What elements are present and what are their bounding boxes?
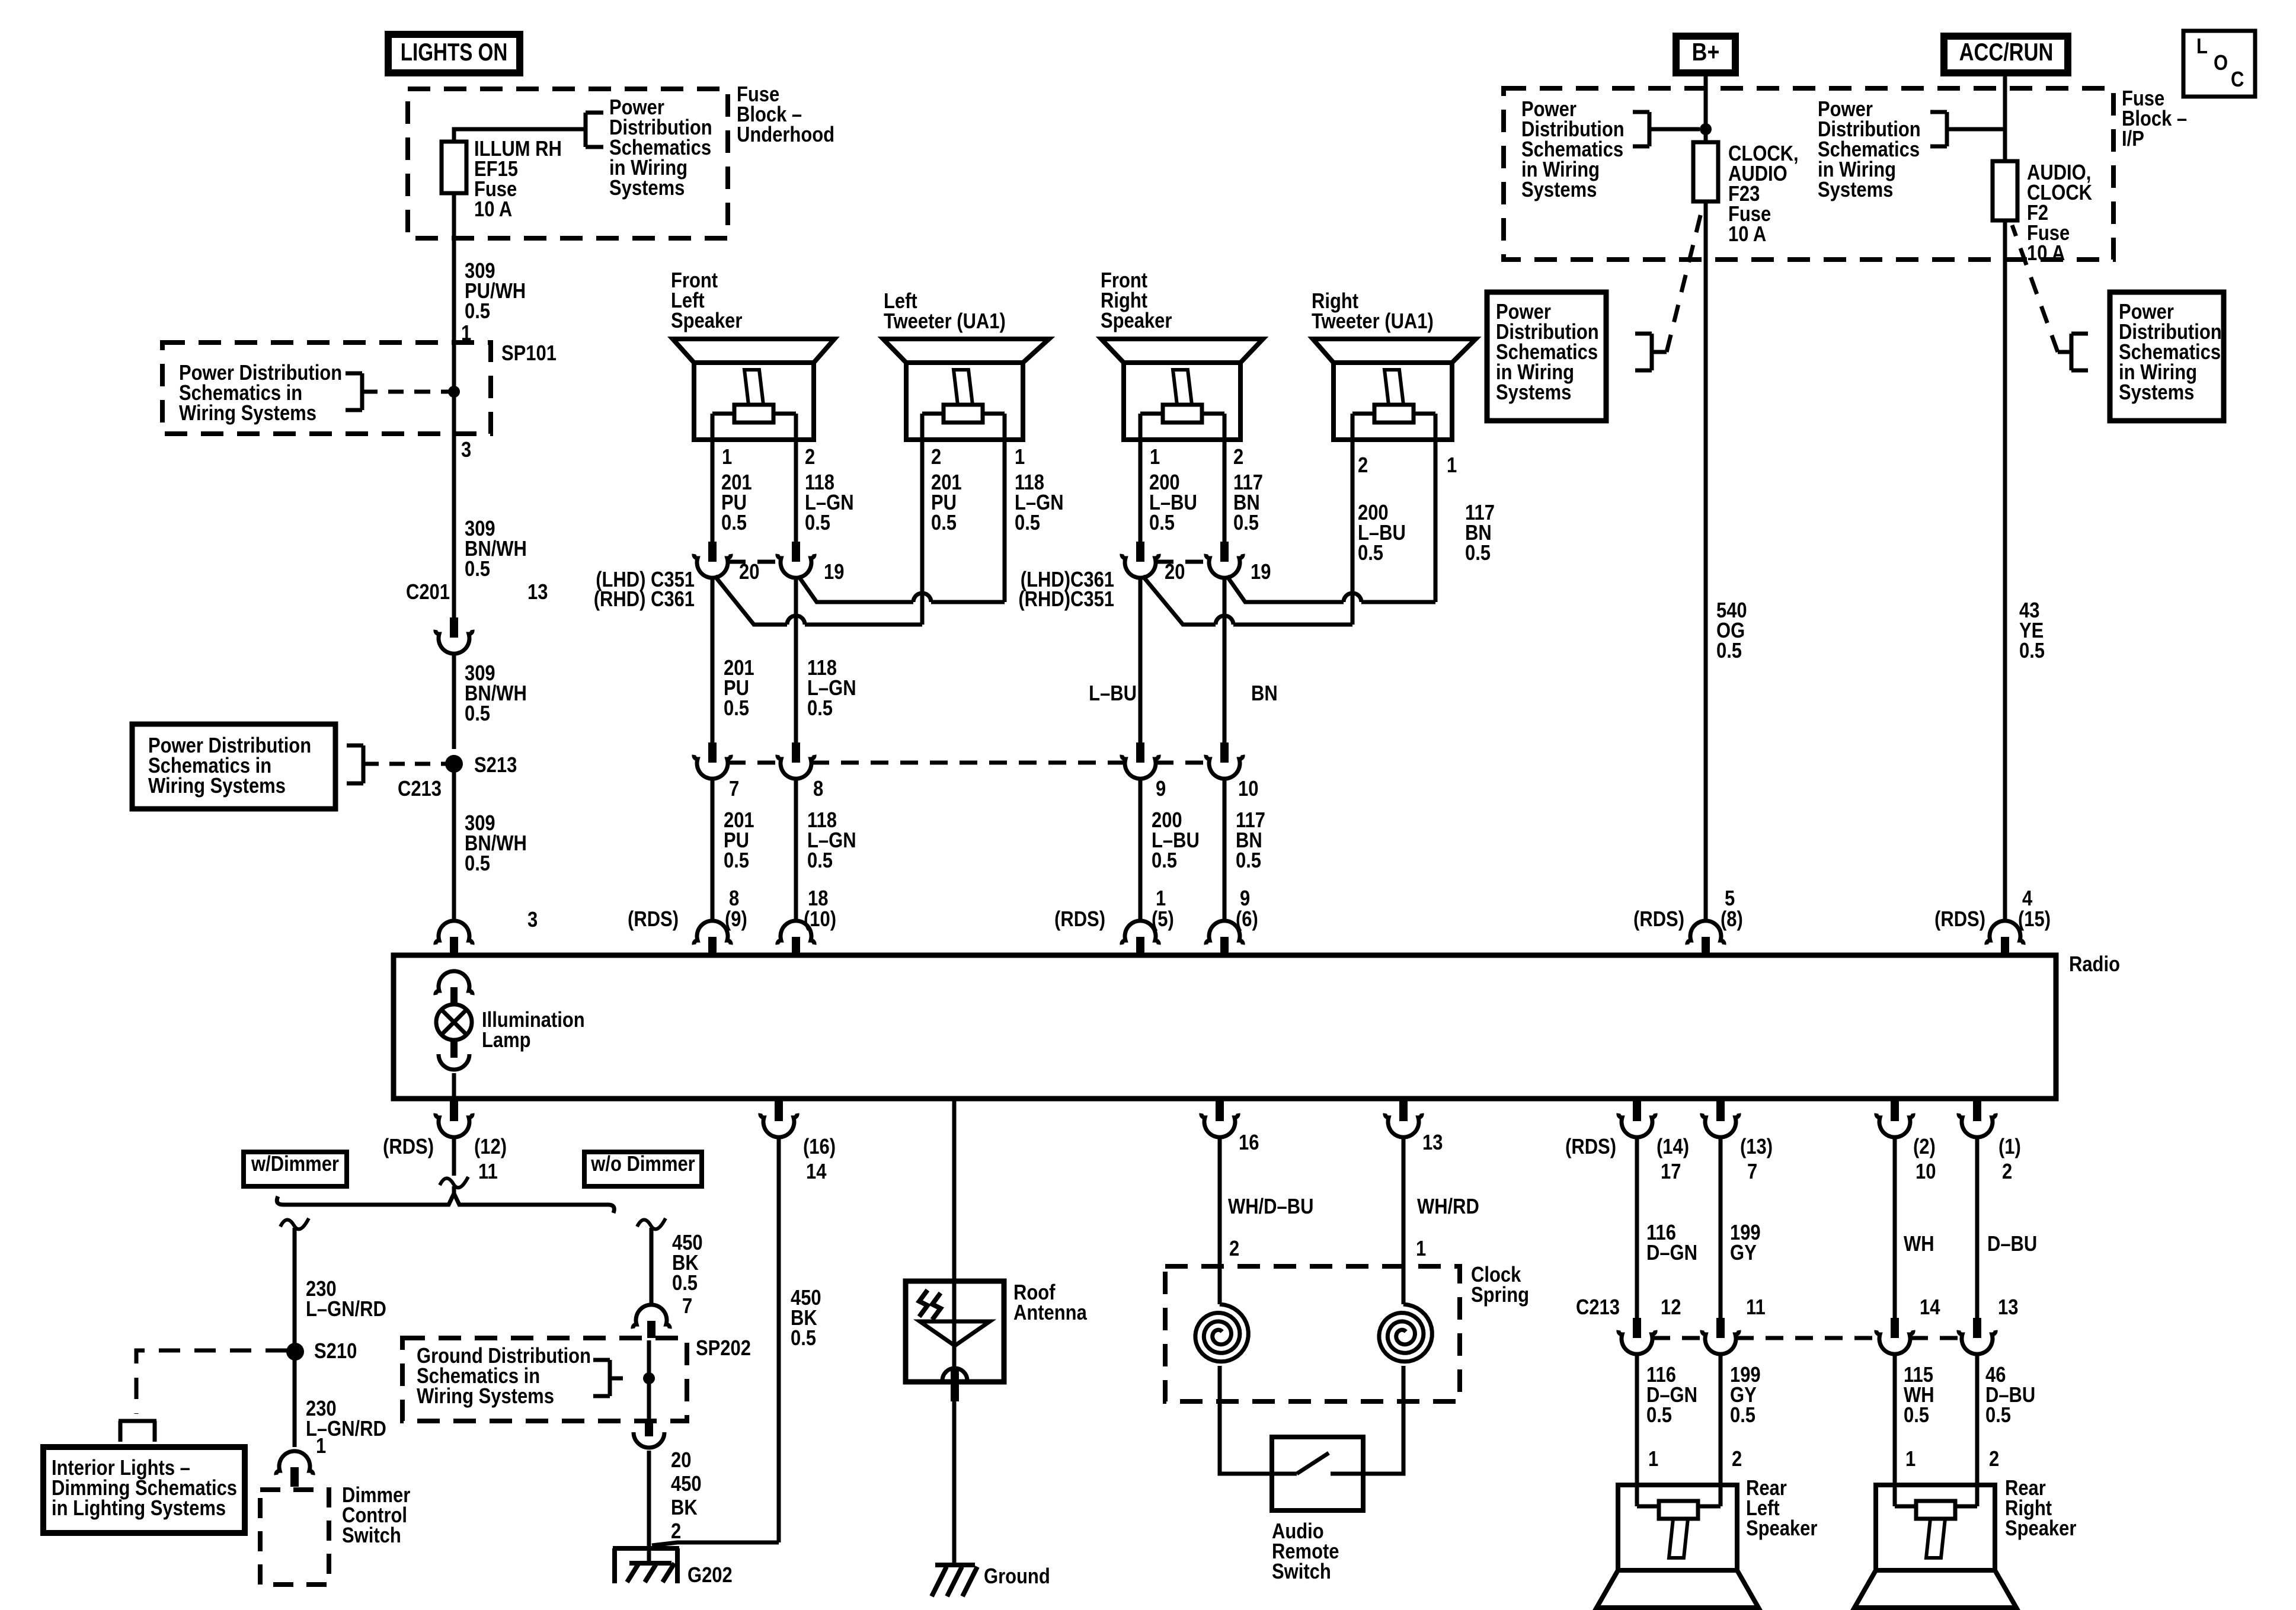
svg-text:S213: S213 (474, 754, 517, 777)
svg-text:0.5: 0.5 (1985, 1404, 2011, 1427)
svg-text:Switch: Switch (342, 1524, 401, 1548)
svg-text:Speaker: Speaker (671, 309, 742, 333)
svg-text:(12): (12) (474, 1135, 507, 1159)
front right speaker (1101, 269, 1263, 440)
splice SP202 connector (bottom) (634, 1421, 664, 1448)
connector C213 pin 8 (778, 742, 823, 801)
radio pin 9 connector (1206, 921, 1243, 955)
svg-text:(8): (8) (1721, 908, 1743, 932)
front left speaker pin labels (722, 446, 815, 469)
wire 118 L-GN 0.5 (speaker pin2) (796, 440, 854, 542)
wire 450 BK 0.5 (radio to G202) (652, 1135, 821, 1545)
reference tab (below ACC) (2012, 225, 2088, 370)
connector line C361 (right) (1156, 560, 1209, 564)
radio pin 5/(8) labels (1633, 887, 1743, 932)
svg-text:18: 18 (808, 887, 828, 911)
reference box power distribution (S213) (132, 724, 335, 809)
wire 309 BN/WH 0.5 (middle) (454, 652, 527, 749)
radio pin 8/(9) labels (628, 887, 747, 932)
svg-text:Systems: Systems (1496, 381, 1571, 405)
svg-text:7: 7 (1747, 1160, 1757, 1184)
clock spring (dashed box) (1165, 1263, 1529, 1401)
svg-text:G202: G202 (687, 1564, 733, 1587)
label w/o Dimmer (584, 1152, 702, 1186)
wire 309 BN/WH 0.5 (lower) (454, 764, 538, 932)
wire BN (to C213) (1224, 576, 1278, 742)
svg-text:(1): (1) (1998, 1135, 2021, 1159)
front left speaker (671, 269, 834, 440)
reference tab (ACC side) (1930, 112, 2005, 146)
wire B+ feed (1704, 76, 1708, 142)
right tweeter pin labels (1358, 454, 1457, 478)
svg-text:(RHD) C361: (RHD) C361 (594, 588, 695, 612)
roof antenna symbol (919, 1281, 990, 1401)
radio pin 13 connector (1385, 1101, 1443, 1155)
node B+ junction dot (1700, 123, 1712, 135)
svg-text:C213: C213 (1576, 1296, 1620, 1320)
wire splice to tweeter pin1 (left) (798, 576, 1005, 602)
svg-text:2: 2 (805, 446, 815, 469)
svg-text:B+: B+ (1692, 39, 1720, 66)
wire 230 L-GN/RD (upper) (280, 1218, 386, 1343)
rear left speaker (1597, 1477, 1817, 1608)
svg-text:Systems: Systems (1521, 178, 1597, 202)
connector C213 pin 13 (1959, 1296, 2019, 1354)
svg-text:WH: WH (1904, 1233, 1934, 1256)
svg-text:0.5: 0.5 (465, 300, 490, 324)
left tweeter pin labels (931, 446, 1025, 469)
radio pin 10/(2) connector (1876, 1101, 1936, 1184)
label power distribution schematics (fuse block) (609, 96, 712, 200)
svg-text:2: 2 (1229, 1237, 1239, 1261)
reference box interior lights dimming (43, 1447, 245, 1533)
front right speaker pin labels (1150, 446, 1243, 469)
clock spring coil left (1195, 1304, 1248, 1362)
node S210 splice (286, 1340, 357, 1363)
svg-text:0.5: 0.5 (807, 849, 833, 873)
svg-text:0.5: 0.5 (1236, 849, 1261, 873)
svg-text:O: O (2214, 52, 2228, 75)
svg-text:(RDS): (RDS) (1934, 908, 1985, 932)
wire clock spring to switch (left) (1220, 1366, 1272, 1474)
wire roof antenna lead (952, 1099, 957, 1281)
wire WH/D-BU (1220, 1135, 1313, 1304)
svg-text:2: 2 (1233, 446, 1243, 469)
splice SP101 (dashed box) (162, 343, 491, 434)
svg-text:Speaker: Speaker (1101, 309, 1172, 333)
svg-text:3: 3 (461, 438, 471, 462)
svg-text:Wiring Systems: Wiring Systems (417, 1385, 554, 1409)
svg-text:(13): (13) (1740, 1135, 1773, 1159)
svg-text:1: 1 (1015, 446, 1025, 469)
svg-text:8: 8 (729, 887, 739, 911)
reference text power distribution (ACC side) (1818, 98, 1921, 202)
radio pin 9/(6) labels (1236, 887, 1258, 932)
wire fuse feed (454, 129, 584, 142)
wire 46 D-BU 0.5 (to rear right spk) (1977, 1352, 2035, 1506)
svg-text:Ground: Ground (984, 1565, 1050, 1589)
wire WH (radio to C213) (1895, 1135, 1934, 1318)
wire 201 PU 0.5 (tweeter pin2) (922, 440, 962, 625)
wire WH/RD (1403, 1135, 1479, 1304)
fuse block I/P (dashed outline) (1504, 88, 2113, 260)
radio pin 3 connector (436, 921, 472, 955)
svg-text:0.5: 0.5 (465, 558, 490, 581)
radio pin 5 connector (1687, 921, 1724, 955)
svg-text:9: 9 (1156, 777, 1166, 801)
svg-text:0.5: 0.5 (1358, 542, 1383, 565)
wire splice to tweeter pin2 (right) (1143, 576, 1352, 625)
svg-text:8: 8 (813, 777, 823, 801)
svg-text:2: 2 (671, 1520, 681, 1544)
svg-text:WH/D–BU: WH/D–BU (1228, 1195, 1313, 1219)
svg-text:10 A: 10 A (2027, 242, 2065, 265)
wire splice to tweeter pin2 (left) (715, 576, 922, 625)
svg-text:S210: S210 (314, 1340, 357, 1363)
reference dashed link (S210) (136, 1350, 287, 1414)
connector C361 pin 20 (right) (1122, 542, 1185, 584)
svg-text:BN: BN (1251, 682, 1278, 706)
fuse F2 AUDIO CLOCK 10A (1993, 161, 2092, 265)
label SP101 (501, 342, 557, 366)
radio pin 18 connector (778, 921, 814, 955)
radio pin 8 connector (694, 921, 731, 955)
right tweeter (UA1) (1312, 290, 1476, 440)
connector C213 pin 10 (1206, 742, 1259, 801)
svg-text:0.5: 0.5 (1904, 1404, 1929, 1427)
connector C201 pin 13 (406, 581, 548, 654)
connector C351 pin 20 (left) (694, 542, 760, 584)
connector C361 pin 19 (right) (1206, 542, 1271, 584)
svg-text:D–GN: D–GN (1646, 1241, 1697, 1265)
svg-text:17: 17 (1661, 1160, 1681, 1184)
svg-text:0.5: 0.5 (1465, 542, 1491, 565)
svg-text:Systems: Systems (2119, 381, 2194, 405)
svg-text:2: 2 (1989, 1448, 1999, 1471)
svg-text:Wiring Systems: Wiring Systems (148, 774, 286, 798)
svg-text:1: 1 (316, 1435, 326, 1458)
svg-text:20: 20 (739, 561, 759, 584)
svg-text:2: 2 (931, 446, 941, 469)
svg-text:LIGHTS ON: LIGHTS ON (401, 39, 508, 66)
splice SP202 connector (top) (633, 1305, 670, 1338)
wire 199 GY (radio to C213) (1721, 1135, 1761, 1318)
svg-text:1: 1 (1905, 1448, 1916, 1471)
wire 20 450 BK 2 (649, 1449, 702, 1563)
fuse block - underhood (dashed outline) (408, 89, 728, 238)
svg-text:in Lighting Systems: in Lighting Systems (52, 1497, 226, 1521)
wire 309 BN/WH 0.5 (upper) (454, 439, 527, 617)
reference box power distribution (below B+) (1487, 292, 1606, 421)
wire 117 BN 0.5 (C213 to radio) (1224, 777, 1265, 922)
radio pin 2/(1) connector (1959, 1101, 2021, 1184)
svg-text:(2): (2) (1913, 1135, 1936, 1159)
reference power distribution text (SP101) (179, 361, 342, 425)
reference tab (interior lights) (119, 1421, 156, 1442)
wire 115 WH 0.5 (to rear right spk) (1895, 1352, 1934, 1506)
wire splice to tweeter pin1 (right) (1227, 576, 1435, 602)
svg-text:1: 1 (1416, 1237, 1426, 1261)
radio pin 4/(15) labels (1934, 887, 2051, 932)
label C213 (front row) (398, 777, 442, 801)
svg-text:Systems: Systems (609, 177, 685, 200)
dimmer control switch (dashed box) (260, 1484, 410, 1585)
wire clock spring to switch (right) (1363, 1366, 1403, 1474)
svg-text:0.5: 0.5 (791, 1327, 816, 1350)
wire 200 L-BU 0.5 (speaker pin1) (1140, 440, 1197, 542)
svg-text:Spring: Spring (1471, 1283, 1529, 1307)
node SP202 splice dot (643, 1372, 655, 1384)
ground (roof antenna) (932, 1565, 1050, 1596)
radio pin 11/(12) connector (383, 1101, 507, 1184)
radio pin 18/(10) labels (804, 887, 836, 932)
wire 116 D-GN (radio to C213) (1637, 1135, 1697, 1318)
reference tab (B+ side) (1633, 112, 1700, 146)
svg-text:L–BU: L–BU (1089, 682, 1137, 706)
svg-text:1: 1 (1150, 446, 1160, 469)
svg-text:0.5: 0.5 (1233, 511, 1259, 535)
connector line C213 (front) (728, 761, 1209, 765)
node SP101 splice dot (415, 386, 460, 398)
svg-text:(14): (14) (1657, 1135, 1689, 1159)
wire 117 BN 0.5 (speaker pin2) (1224, 440, 1263, 542)
radio pin 1/(5) labels (1054, 887, 1174, 932)
LOC legend box (2183, 31, 2255, 97)
wire 540 OG 0.5 (1706, 201, 1747, 922)
svg-text:16: 16 (1239, 1131, 1259, 1155)
svg-text:11: 11 (1746, 1296, 1766, 1320)
svg-text:19: 19 (824, 561, 844, 584)
svg-text:14: 14 (806, 1160, 827, 1184)
svg-text:GY: GY (1730, 1241, 1757, 1265)
ground G202 (613, 1548, 733, 1587)
connector C213 pin 12 (1619, 1296, 1681, 1354)
wire 116 D-GN 0.5 (to rear left spk) (1637, 1352, 1697, 1506)
reference text power distribution (B+ side) (1521, 98, 1625, 202)
svg-text:1: 1 (722, 446, 732, 469)
reference tab (below B+) (1635, 213, 1701, 370)
svg-text:D–BU: D–BU (1987, 1233, 2037, 1256)
svg-text:Systems: Systems (1818, 178, 1893, 202)
svg-text:10: 10 (1238, 777, 1258, 801)
svg-text:(9): (9) (725, 908, 747, 932)
svg-text:Tweeter (UA1): Tweeter (UA1) (884, 310, 1006, 334)
svg-text:1: 1 (1156, 887, 1166, 911)
label fuse block I/P (2122, 87, 2187, 151)
svg-text:SP202: SP202 (696, 1337, 751, 1361)
wire 199 GY 0.5 (to rear left spk) (1721, 1352, 1761, 1506)
reference text ground distribution (417, 1345, 591, 1409)
wire 118 L-GN 0.5 (C213 to radio) (796, 777, 856, 922)
wire ACC feed (2003, 76, 2007, 161)
svg-text:1: 1 (1648, 1448, 1658, 1471)
wire SP202 internal (647, 1340, 651, 1421)
wire 309 PU/WH 0.5 (454, 193, 526, 345)
svg-text:C213: C213 (398, 777, 442, 801)
connector C213 pin 11 (1702, 1296, 1766, 1354)
svg-text:10: 10 (1916, 1160, 1936, 1184)
svg-text:20: 20 (671, 1449, 691, 1473)
svg-text:10 A: 10 A (474, 198, 512, 222)
connector C213 pin 9 (1122, 742, 1166, 801)
connector line C351 (left) (728, 560, 781, 564)
wire 43 YE 0.5 (2005, 220, 2045, 922)
clock spring coil right (1379, 1304, 1432, 1362)
radio (box) (394, 953, 2120, 1099)
svg-text:ACC/RUN: ACC/RUN (1959, 39, 2054, 66)
label fuse block underhood (737, 83, 834, 147)
svg-text:Lamp: Lamp (482, 1029, 531, 1052)
svg-text:20: 20 (1165, 561, 1185, 584)
audio remote switch (1272, 1437, 1363, 1584)
left tweeter (UA1) (883, 290, 1049, 440)
svg-text:0.5: 0.5 (1152, 849, 1177, 873)
svg-text:13: 13 (527, 581, 548, 604)
svg-text:(RDS): (RDS) (383, 1135, 434, 1159)
svg-text:1: 1 (1447, 454, 1457, 478)
radio pin 1 connector (1122, 921, 1159, 955)
svg-text:Switch: Switch (1272, 1560, 1331, 1584)
svg-text:450: 450 (671, 1473, 702, 1496)
svg-text:7: 7 (682, 1295, 692, 1318)
svg-text:(RDS): (RDS) (1565, 1135, 1616, 1159)
svg-text:13: 13 (1998, 1296, 2018, 1320)
svg-text:0.5: 0.5 (1730, 1404, 1755, 1427)
svg-text:SP101: SP101 (501, 342, 557, 366)
svg-text:0.5: 0.5 (2019, 639, 2045, 663)
svg-text:Wiring Systems: Wiring Systems (179, 402, 316, 425)
fuse EF15 ILLUM RH 10A (442, 137, 562, 222)
svg-text:(16): (16) (803, 1135, 836, 1159)
label C351/C361 (left) (594, 568, 695, 612)
svg-text:BK: BK (671, 1496, 698, 1520)
wire antenna ground lead (952, 1401, 957, 1567)
label C213 (rear row) (1576, 1296, 1620, 1320)
splice SP202 (dashed box) (402, 1337, 751, 1421)
svg-text:13: 13 (1422, 1131, 1443, 1155)
svg-text:11: 11 (478, 1160, 498, 1184)
connector C213 pin 7 (694, 742, 739, 801)
svg-text:L–GN/RD: L–GN/RD (306, 1298, 386, 1321)
reference tab (S213) (347, 745, 415, 783)
svg-text:0.5: 0.5 (724, 849, 749, 873)
svg-text:7: 7 (729, 777, 739, 801)
label C361/C351 (right) (1018, 568, 1114, 612)
svg-text:10 A: 10 A (1728, 223, 1766, 247)
illumination lamp (436, 971, 585, 1099)
fuse F23 CLOCK AUDIO 10A (1693, 142, 1799, 247)
radio pin 14/(16) connector (760, 1101, 836, 1184)
connector line C213 (rear) (1652, 1336, 1962, 1340)
svg-text:3: 3 (527, 908, 538, 932)
svg-text:0.5: 0.5 (724, 697, 749, 721)
svg-text:0.5: 0.5 (465, 702, 490, 726)
wire 450 BK 0.5 7 (w/o dimmer) (637, 1218, 703, 1318)
svg-text:C: C (2231, 68, 2244, 92)
svg-text:0.5: 0.5 (805, 511, 830, 535)
svg-text:Speaker: Speaker (2005, 1517, 2076, 1541)
wire 117 BN 0.5 (tweeter pin1) (1435, 440, 1495, 602)
svg-text:14: 14 (1920, 1296, 1940, 1320)
svg-text:0.5: 0.5 (1716, 639, 1742, 663)
svg-text:(RDS): (RDS) (1054, 908, 1105, 932)
wire 201 PU 0.5 (to C213) (712, 576, 754, 742)
svg-text:w/o Dimmer: w/o Dimmer (590, 1153, 695, 1176)
svg-text:C201: C201 (406, 581, 450, 604)
svg-text:w/Dimmer: w/Dimmer (251, 1153, 339, 1176)
node S213 splice (415, 754, 517, 777)
svg-text:0.5: 0.5 (465, 852, 490, 876)
wire to dimmer split (440, 1135, 468, 1193)
svg-text:(RDS): (RDS) (1633, 908, 1684, 932)
wire 201 PU 0.5 (speaker pin1) (712, 440, 752, 542)
svg-text:19: 19 (1251, 561, 1271, 584)
reference tab (SP202) (593, 1360, 629, 1396)
roof antenna (box) (906, 1281, 1087, 1382)
svg-text:12: 12 (1661, 1296, 1681, 1320)
svg-text:(15): (15) (2018, 908, 2051, 932)
svg-text:9: 9 (1240, 887, 1250, 911)
svg-text:0.5: 0.5 (672, 1272, 698, 1295)
svg-text:0.5: 0.5 (1015, 511, 1040, 535)
svg-text:(RDS): (RDS) (628, 908, 679, 932)
label w/Dimmer (244, 1152, 347, 1186)
wire 200 L-BU 0.5 (tweeter pin2) (1352, 440, 1406, 625)
connector C351 pin 19 (left) (778, 542, 845, 584)
svg-text:0.5: 0.5 (721, 511, 747, 535)
svg-text:WH/RD: WH/RD (1417, 1195, 1479, 1219)
power feed label B+ (1676, 36, 1735, 73)
svg-text:0.5: 0.5 (1646, 1404, 1672, 1427)
svg-text:2: 2 (1358, 454, 1368, 478)
svg-text:0.5: 0.5 (931, 511, 957, 535)
wire 230 L-GN/RD (lower) (295, 1360, 386, 1458)
reference tab (SP101) (346, 373, 415, 410)
wire 200 L-BU 0.5 (C213 to radio) (1140, 777, 1200, 922)
svg-text:Antenna: Antenna (1013, 1301, 1087, 1325)
wire 201 PU 0.5 (C213 to radio) (712, 777, 754, 922)
wire through SP101 (454, 343, 471, 462)
wire option split brace (277, 1193, 614, 1213)
svg-text:0.5: 0.5 (807, 697, 833, 721)
radio pin 7/(13) connector (1702, 1101, 1773, 1184)
radio pin 16 connector (1201, 1101, 1259, 1155)
wire D-BU (radio to C213) (1977, 1135, 2037, 1318)
dimmer control switch connector (276, 1451, 313, 1487)
svg-text:I/P: I/P (2122, 127, 2144, 151)
reference box power distribution (below ACC) (2110, 292, 2224, 421)
radio pin 17/(14) connector (1565, 1101, 1689, 1184)
rear right speaker (1854, 1477, 2076, 1608)
reference tab power distribution (fuse block) (586, 113, 603, 147)
svg-text:0.5: 0.5 (1149, 511, 1175, 535)
svg-text:2: 2 (1732, 1448, 1742, 1471)
svg-text:Radio: Radio (2069, 953, 2120, 977)
svg-text:2: 2 (2002, 1160, 2012, 1184)
svg-text:4: 4 (2022, 887, 2033, 911)
power feed label ACC/RUN (1944, 36, 2068, 73)
svg-text:Tweeter (UA1): Tweeter (UA1) (1312, 310, 1434, 334)
svg-text:L: L (2196, 35, 2208, 59)
wire L-BU (to C213) (1089, 576, 1140, 742)
connector C213 pin 14 (1876, 1296, 1940, 1354)
radio pin 4 connector (1987, 921, 2023, 955)
wire 118 L-GN 0.5 (to C213) (796, 576, 856, 742)
wire 118 L-GN 0.5 (tweeter pin1) (1005, 440, 1064, 602)
svg-text:(RHD)C351: (RHD)C351 (1018, 588, 1114, 612)
svg-text:Underhood: Underhood (737, 123, 834, 147)
svg-text:5: 5 (1725, 887, 1735, 911)
